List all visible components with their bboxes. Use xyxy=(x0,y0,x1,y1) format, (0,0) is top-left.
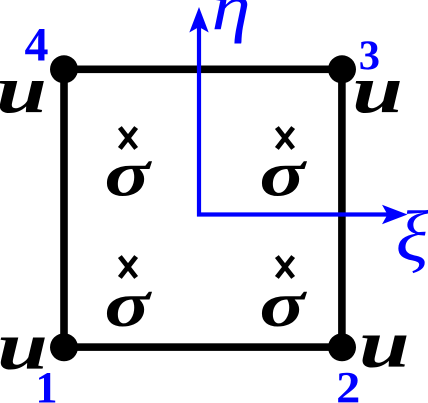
node 1 xyxy=(50,333,78,361)
eta axis arrowhead xyxy=(189,7,208,33)
svg-text:σ: σ xyxy=(105,269,153,341)
xi axis shaft xyxy=(197,212,388,216)
node 4 xyxy=(50,55,78,83)
svg-text:u: u xyxy=(0,53,47,127)
svg-text:u: u xyxy=(0,310,48,384)
gauss x mark bottom-left xyxy=(120,257,136,278)
svg-text:σ: σ xyxy=(260,269,308,341)
svg-text:σ: σ xyxy=(260,139,308,211)
node 3 xyxy=(328,55,356,83)
svg-text:ξ: ξ xyxy=(396,197,428,277)
xi axis arrowhead xyxy=(382,205,408,224)
svg-text:u: u xyxy=(359,308,410,382)
eta axis shaft xyxy=(197,26,201,217)
svg-text:u: u xyxy=(352,53,403,127)
svg-text:η: η xyxy=(212,0,251,44)
gauss x mark bottom-right xyxy=(277,257,293,278)
svg-text:σ: σ xyxy=(105,139,153,211)
svg-text:2: 2 xyxy=(336,364,360,403)
element outline (square) xyxy=(64,69,342,347)
node 2 xyxy=(328,333,356,361)
gauss x mark top-right xyxy=(277,128,293,149)
gauss x mark top-left xyxy=(120,128,136,149)
